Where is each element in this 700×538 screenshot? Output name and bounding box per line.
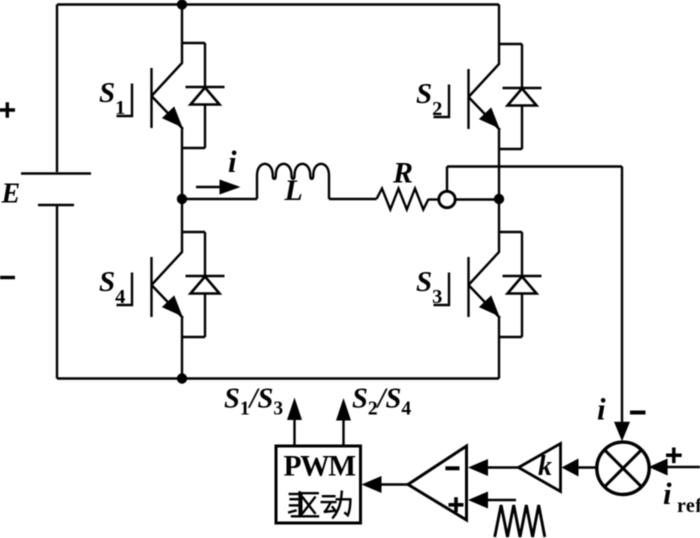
wire gain to comparator: [486, 466, 519, 468]
svg-text:ref: ref: [677, 495, 700, 517]
diode of S1 anode lead: [204, 105, 206, 149]
diode of S2 anode lead: [521, 106, 523, 150]
wire top rail: [57, 3, 499, 5]
label + at summer: [666, 448, 682, 464]
transistor S3 emitter arrow: [479, 295, 500, 316]
wire PWM output stub left: [293, 419, 295, 446]
diode of S1 cathode lead: [204, 43, 206, 87]
arrow gate signal S2/S4: [336, 398, 351, 421]
diode of S1 cathode bar: [186, 86, 225, 88]
transistor S1 emitter jog: [182, 147, 205, 149]
svg-text:E: E: [1, 179, 21, 210]
diode of S3 anode lead: [521, 294, 523, 338]
transistor S4 gate lead: [117, 273, 133, 306]
transistor S4 collector jog: [182, 231, 205, 233]
transistor S1 gate lead: [117, 84, 133, 117]
arrow into PWM block: [362, 476, 382, 493]
wire bottom rail: [57, 377, 499, 379]
transistor S4 emitter jog: [182, 336, 205, 338]
label drive character dong: [322, 492, 351, 518]
label drive character qu: [289, 492, 318, 516]
transistor S1 collector jog: [182, 42, 205, 44]
label minus input: [445, 466, 459, 470]
battery E positive plate: [21, 172, 91, 174]
arrow iref into summer: [649, 459, 668, 476]
transistor S3 body bar: [467, 257, 469, 317]
wire S4 emitter to bottom rail: [181, 337, 183, 379]
transistor S4 emitter lead: [152, 285, 184, 337]
gain block k triangle: [519, 444, 561, 492]
wire left source branch upper: [56, 5, 58, 173]
transistor S2 collector jog: [499, 43, 522, 45]
wire mid node to S3: [498, 199, 500, 232]
current sensor circle: [439, 191, 455, 207]
wire feedback down to summer: [621, 167, 623, 424]
svg-text:L: L: [284, 174, 303, 207]
wire summer to gain k: [578, 466, 598, 468]
transistor S2 emitter jog: [499, 148, 522, 150]
diode of S4 cathode lead: [204, 232, 206, 276]
wire iref input: [666, 466, 700, 468]
comparator triangle: [408, 446, 467, 520]
transistor S3 collector jog: [499, 231, 522, 233]
wire mid node to S4: [181, 199, 183, 232]
wire PWM output stub right: [342, 419, 344, 446]
wire sensor feedback up: [446, 167, 448, 192]
diode of S2 cathode lead: [521, 44, 523, 88]
wire sensor to right mid node: [456, 198, 499, 200]
wire sawtooth to comparator plus: [486, 499, 516, 501]
PWM drive block box: [276, 446, 361, 523]
transistor S3 emitter lead: [469, 285, 501, 337]
wire S3 emitter to bottom rail: [498, 337, 500, 379]
svg-text:i: i: [228, 144, 237, 179]
diode of S4 triangle: [191, 277, 220, 294]
diode of S3 triangle: [508, 277, 537, 294]
label + of battery: [0, 102, 15, 117]
arrow gate signal S1/S3: [287, 398, 302, 421]
inductor L: [257, 164, 329, 199]
transistor S3 gate lead: [434, 273, 450, 306]
transistor S2 emitter lead: [469, 97, 501, 149]
wire feedback top horizontal: [447, 165, 622, 167]
battery E negative plate: [38, 204, 74, 206]
wire mid rail left: [182, 198, 257, 200]
wire right leg top: [498, 5, 500, 45]
arrow into summer top: [614, 422, 630, 442]
diode of S2 triangle: [508, 89, 537, 106]
transistor S1 collector lead: [152, 43, 183, 96]
svg-text:R: R: [392, 157, 413, 190]
transistor S4 body bar: [150, 257, 152, 317]
node left mid junction A: [177, 194, 187, 204]
label minus at summer: [630, 411, 646, 415]
transistor S2 gate lead: [434, 85, 450, 118]
arrow into comparator plus: [468, 492, 488, 509]
transistor S2 collector lead: [469, 44, 500, 97]
transistor S4 emitter arrow: [162, 295, 183, 316]
diode of S3 cathode bar: [503, 275, 542, 277]
node top rail / left leg junction: [177, 0, 187, 10]
node right mid junction B: [494, 194, 504, 204]
label - of battery: [0, 276, 15, 279]
wire S2 emitter to mid node: [498, 149, 500, 199]
label plus input: [449, 497, 464, 512]
transistor S3 emitter jog: [499, 336, 522, 338]
wire left source branch lower: [56, 205, 58, 379]
wire comparator to PWM block: [378, 483, 408, 485]
transistor S1 emitter lead: [152, 96, 184, 148]
svg-text:k: k: [538, 451, 552, 482]
wire S1 emitter to mid node: [181, 148, 183, 199]
wire resistor to sensor: [429, 198, 439, 200]
transistor S3 collector lead: [469, 232, 500, 285]
summing junction circle: [597, 442, 649, 494]
transistor S1 emitter arrow: [162, 106, 183, 127]
current arrow i: [196, 186, 221, 188]
diode of S4 anode lead: [204, 294, 206, 338]
sawtooth carrier waveform: [495, 505, 545, 537]
svg-text:PWM: PWM: [284, 451, 356, 483]
wire inductor to resistor: [329, 198, 377, 200]
transistor S4 collector lead: [152, 232, 183, 285]
diode of S2 cathode bar: [503, 87, 542, 89]
diode of S4 cathode bar: [186, 275, 225, 277]
transistor S2 body bar: [467, 69, 469, 129]
node bottom rail junction: [177, 373, 187, 383]
diode of S1 triangle: [191, 88, 220, 105]
diode of S3 cathode lead: [521, 232, 523, 276]
svg-text:i: i: [663, 476, 672, 511]
transistor S2 emitter arrow: [479, 107, 500, 128]
wire left leg top: [181, 5, 183, 44]
arrow into gain k: [562, 459, 579, 477]
transistor S1 body bar: [150, 68, 152, 128]
summing junction X: [605, 450, 642, 487]
arrow into comparator minus: [468, 459, 488, 476]
resistor R: [377, 189, 429, 210]
svg-text:i: i: [597, 392, 606, 427]
